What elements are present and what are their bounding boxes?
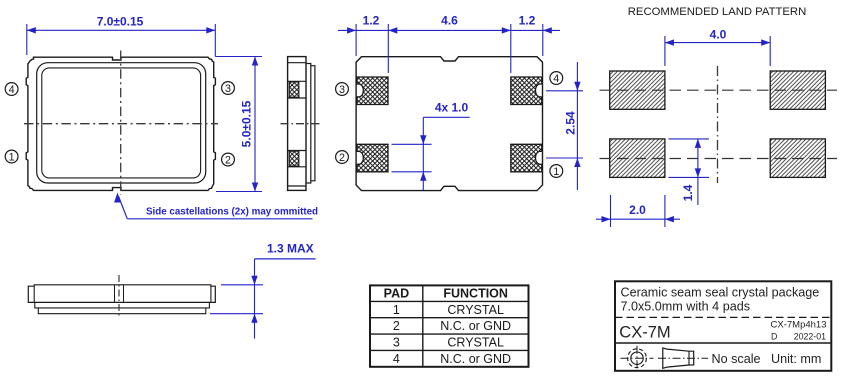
front view centre line vertical [120,51,122,196]
svg-text:3: 3 [393,335,400,349]
third angle projection symbol cone [663,348,694,368]
svg-text:2.54: 2.54 [563,111,577,135]
dimension 2.0 [610,195,612,227]
bottom view pad 4 (top-right, hatched) [511,77,542,105]
svg-text:RECOMMENDED LAND PATTERN: RECOMMENDED LAND PATTERN [628,6,806,18]
bottom view pad 2 (bottom-left, hatched) [357,144,388,172]
svg-text:CRYSTAL: CRYSTAL [447,303,504,317]
svg-text:1: 1 [393,303,400,317]
svg-text:3: 3 [225,83,231,95]
side view body [288,57,306,191]
svg-text:FUNCTION: FUNCTION [443,287,508,301]
dimension 1.4 [669,138,710,140]
pad number 2 [222,153,235,166]
land pattern row centre line top [600,89,838,91]
dimension 1.2 / 4.6 / 1.2 [355,24,357,56]
dimension 1.3 MAX [221,284,263,286]
svg-text:N.C. or GND: N.C. or GND [440,319,511,333]
svg-text:2.0: 2.0 [629,203,646,217]
title block solid divider [615,342,831,344]
svg-text:1.2: 1.2 [519,14,536,28]
svg-text:2: 2 [393,319,400,333]
title block border [615,281,831,371]
profile view base step 2 [38,308,206,314]
svg-text:1.2: 1.2 [363,14,380,28]
pad number 4 (bottom view) [550,72,563,85]
svg-text:1: 1 [553,166,559,178]
svg-text:2: 2 [339,152,345,164]
bottom view pad 1 (bottom-right, hatched) [511,144,542,172]
svg-text:7.0±0.15: 7.0±0.15 [97,15,144,29]
side view pad top (hatched) [289,82,299,97]
svg-text:2022-01: 2022-01 [794,331,826,341]
land pattern pad top-left [610,71,665,109]
front view centre line horizontal [24,123,218,125]
land pattern row centre line bottom [600,158,838,160]
profile view seam centre [114,285,116,303]
dimension 5.0±0.15 [215,56,262,58]
land pattern vertical centre line [717,66,719,183]
svg-text:D: D [771,331,777,341]
svg-text:N.C. or GND: N.C. or GND [440,352,511,366]
svg-text:1.4: 1.4 [681,184,695,201]
side view centre line [281,123,322,125]
pad number 2 (bottom view) [336,151,349,164]
profile view body [28,285,215,303]
svg-text:CX-7M: CX-7M [619,323,670,341]
pad number 3 [222,82,235,95]
pad number 3 (bottom view) [336,83,349,96]
front view lid seam inner [42,68,201,178]
svg-text:CRYSTAL: CRYSTAL [447,335,504,349]
dimension 7.0±0.15 [26,24,28,55]
land pattern pad top-right [770,71,825,109]
svg-text:4: 4 [9,84,15,96]
svg-text:4.0: 4.0 [710,27,727,41]
side view lid layers [306,64,311,184]
svg-text:1: 1 [9,151,15,163]
svg-text:4x 1.0: 4x 1.0 [435,101,469,115]
pad number 4 [5,83,18,96]
svg-text:Side castellations (2x) may om: Side castellations (2x) may ommitted [146,206,318,217]
front view package outline [26,57,215,190]
svg-text:4: 4 [553,73,559,85]
svg-text:CX-7Mp4h13: CX-7Mp4h13 [771,319,827,330]
svg-text:7.0x5.0mm with 4 pads: 7.0x5.0mm with 4 pads [621,299,751,313]
svg-text:4: 4 [393,352,400,366]
third angle projection symbol circle [628,349,647,368]
note: side castellations leader [114,193,121,203]
land pattern pad bottom-left [610,139,665,178]
side view pad bottom (hatched) [289,151,299,166]
profile view centre line [118,275,120,316]
pad number 1 (bottom view) [550,165,563,178]
bottom view outline [356,57,542,191]
svg-text:No scale: No scale [712,352,761,366]
pad number 1 [5,150,18,163]
svg-text:4.6: 4.6 [441,14,458,28]
dimension 2.54 [546,90,583,92]
profile view base step 1 [35,302,210,308]
svg-text:5.0±0.15: 5.0±0.15 [240,100,254,147]
title block dashed divider [615,316,831,318]
svg-text:Ceramic seam seal crystal pack: Ceramic seam seal crystal package [621,285,820,299]
svg-text:Unit: mm: Unit: mm [771,352,821,366]
svg-text:1.3 MAX: 1.3 MAX [267,242,314,256]
land pattern pad bottom-right [770,139,825,178]
dimension 4.0 [664,36,666,66]
svg-text:3: 3 [339,84,345,96]
bottom view pad 3 (top-left, hatched) [357,77,388,105]
front view lid seam outer [37,63,206,183]
svg-text:PAD: PAD [384,287,409,301]
svg-text:2: 2 [225,154,231,166]
pad function table [370,285,529,366]
